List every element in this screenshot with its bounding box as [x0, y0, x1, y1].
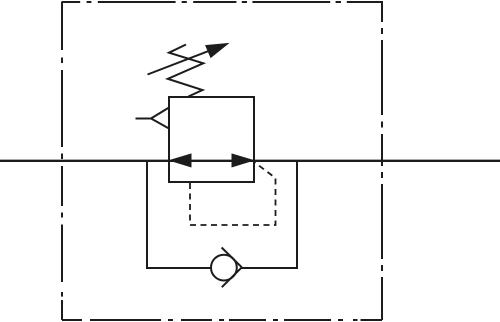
- vent stub: [136, 118, 152, 120]
- vent chevron: [151, 108, 169, 129]
- valve body U1: [169, 97, 254, 182]
- bypass line left vertical: [147, 160, 212, 268]
- check valve seat lower arm: [222, 267, 242, 287]
- enclosure boundary bottom edge (dash-dot): [62, 319, 382, 321]
- flow path arrow left: [170, 154, 191, 167]
- spring (adjustable): [168, 45, 204, 97]
- pilot line (dashed): [190, 162, 276, 226]
- flow path arrow right: [232, 154, 253, 167]
- adjustment arrow head: [206, 44, 228, 58]
- enclosure boundary left edge (dash-dot): [61, 2, 63, 321]
- bypass line right segment: [241, 160, 298, 268]
- adjustment arrow shaft: [148, 49, 214, 74]
- enclosure boundary top edge (dash-dot): [62, 1, 382, 3]
- main flow line: [0, 160, 500, 162]
- enclosure boundary right edge (dash-dot): [381, 1, 383, 320]
- check valve circle: [211, 255, 237, 281]
- check valve seat upper arm: [222, 248, 242, 268]
